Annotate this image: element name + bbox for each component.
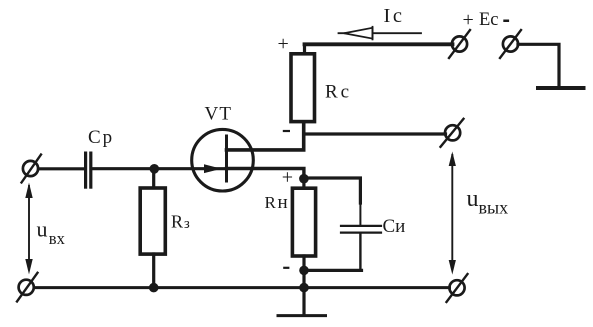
wire + node to Cu top lead xyxy=(304,178,361,225)
wire drain of VT up to Rc bottom xyxy=(227,124,304,150)
wire bottom rail xyxy=(34,286,450,289)
plus label at source node xyxy=(282,166,293,188)
plus label at Rc top xyxy=(278,33,289,55)
node E: bottom rail junction under Rn xyxy=(299,283,309,293)
wire -Ec terminal to right ground xyxy=(518,44,559,86)
transistor VT (FET, circle + channel + gate arrow) xyxy=(192,129,254,191)
capacitor Cu xyxy=(341,226,381,233)
svg-text:Rc: Rc xyxy=(325,82,352,103)
terminal +Ec xyxy=(449,30,470,58)
node C: R3 bottom junction xyxy=(149,283,159,293)
svg-text:R: R xyxy=(171,212,183,232)
label Cu xyxy=(383,216,406,237)
wire source of VT to + node xyxy=(227,169,304,179)
svg-text:Си: Си xyxy=(383,216,406,237)
svg-text:u: u xyxy=(467,186,479,212)
terminal input bottom (left) xyxy=(17,273,38,302)
u_vyh measurement arrow xyxy=(449,152,456,275)
minus label at Rc bottom xyxy=(283,130,290,132)
svg-text:Ec: Ec xyxy=(479,10,499,30)
label Rc xyxy=(325,82,352,103)
svg-text:з: з xyxy=(184,216,190,232)
label R3 xyxy=(171,212,190,232)
terminal output bottom (right) xyxy=(447,274,468,302)
label u_vx xyxy=(37,216,66,248)
svg-text:+: + xyxy=(282,166,293,188)
wire Cp to gate of VT xyxy=(93,167,225,170)
resistor R3 (gate resistor) xyxy=(140,169,165,288)
label Cp xyxy=(88,127,114,148)
svg-text:вых: вых xyxy=(479,198,509,218)
svg-text:R: R xyxy=(265,193,277,212)
node B: + output node of source (junction dot) xyxy=(299,174,309,184)
minus label at Rn bottom xyxy=(283,267,289,269)
ground (right, chassis bar) xyxy=(538,86,584,90)
svg-text:н: н xyxy=(278,192,288,213)
ground (bottom, stem + bar) xyxy=(278,288,326,316)
label u_vyh xyxy=(467,186,509,218)
label Rn xyxy=(265,192,288,213)
label VT xyxy=(205,103,233,124)
wire Rc top to +Ec terminal xyxy=(305,42,453,46)
current arrow Ic xyxy=(339,27,422,40)
label Ic xyxy=(384,5,405,27)
svg-text:вх: вх xyxy=(49,229,66,248)
svg-text:+: + xyxy=(463,9,474,31)
capacitor Cp xyxy=(86,153,91,187)
resistor Rn (load) xyxy=(292,179,315,288)
node A: junction of gate wire and R3 xyxy=(150,164,160,174)
svg-text:VT: VT xyxy=(205,103,233,124)
label + Ec - xyxy=(463,9,510,31)
svg-text:+: + xyxy=(278,33,289,55)
input terminal (top-left) xyxy=(22,155,42,183)
wire input terminal to Cp xyxy=(39,167,85,170)
svg-text:Cр: Cр xyxy=(88,127,114,148)
terminal output (top right of u_vyh) xyxy=(441,119,464,147)
terminal -Ec xyxy=(500,30,521,58)
node D: Rn bottom / Cu junction xyxy=(299,266,309,276)
svg-text:Ic: Ic xyxy=(384,5,405,27)
svg-text:u: u xyxy=(37,216,48,241)
wire drain node to output terminal xyxy=(304,132,446,135)
wire Cu bottom lead to - node xyxy=(304,234,362,271)
resistor Rc xyxy=(291,44,315,121)
u_vx measurement arrow xyxy=(25,183,32,275)
